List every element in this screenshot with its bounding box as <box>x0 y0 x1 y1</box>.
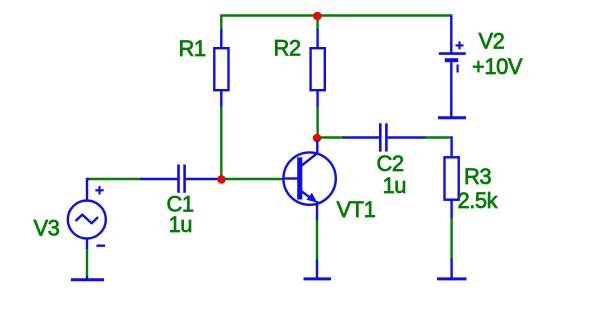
svg-text:R2: R2 <box>274 35 301 60</box>
wire emitter <box>316 220 318 261</box>
battery V2 <box>438 16 466 118</box>
svg-text:V2: V2 <box>479 28 505 53</box>
wire C2 to R3 corner <box>425 136 451 138</box>
svg-text:R1: R1 <box>179 36 206 61</box>
svg-text:+10V: +10V <box>472 54 523 79</box>
capacitor C1 <box>140 165 219 193</box>
source V3 <box>68 179 106 250</box>
node junction dot top rail <box>313 12 322 21</box>
resistor R1 <box>214 29 228 108</box>
wire R1 top stub <box>220 16 222 31</box>
wire R2 top stub <box>316 16 318 31</box>
ground bar R3 <box>437 259 467 279</box>
resistor R2 <box>311 29 325 108</box>
node junction dot base <box>217 175 226 184</box>
wire base node to VT1 <box>224 178 283 180</box>
ground bar emitter <box>304 260 332 280</box>
node junction dot collector <box>313 134 322 143</box>
wire R1 bottom to base node <box>220 107 222 179</box>
wire V3 bottom <box>86 249 88 277</box>
wire top rail from R1 to V2 <box>220 14 452 16</box>
svg-text:V3: V3 <box>34 215 60 240</box>
wire R2 bottom to collector node <box>316 107 318 136</box>
svg-text:2.5k: 2.5k <box>458 188 499 213</box>
wire collector node to C2 <box>320 136 344 138</box>
svg-text:VT1: VT1 <box>337 197 376 222</box>
ground bar V3 <box>71 276 104 280</box>
svg-text:R3: R3 <box>464 164 491 189</box>
transistor VT1 <box>283 140 336 221</box>
capacitor C2 <box>343 123 426 151</box>
wire R3 bottom <box>450 218 452 260</box>
svg-text:1u: 1u <box>383 173 406 198</box>
svg-text:1u: 1u <box>169 212 192 237</box>
resistor R3 <box>445 138 459 220</box>
wire V3 to C1 <box>89 178 141 180</box>
